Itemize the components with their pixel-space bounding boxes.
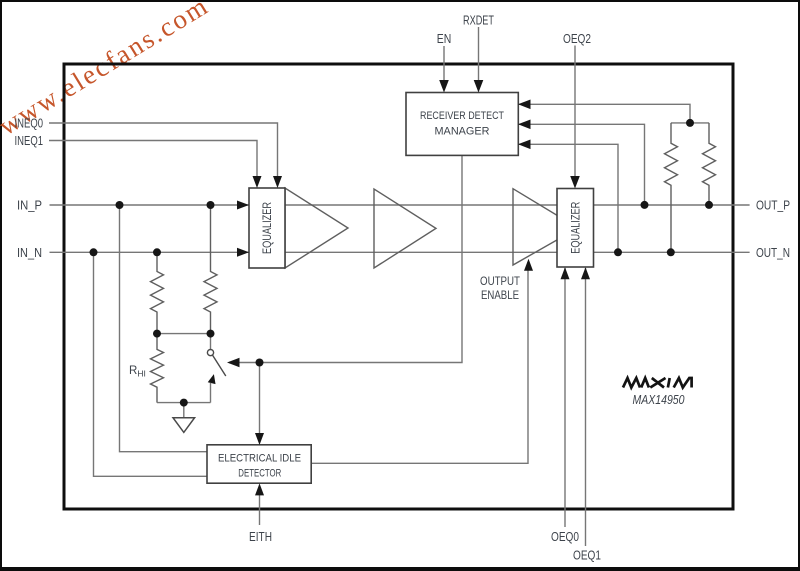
arrow into receiver detect manager feedback 2 (518, 120, 531, 130)
svg-text:MAX14950: MAX14950 (633, 393, 685, 407)
node IN_N branch 1 (90, 248, 98, 256)
svg-text:OUT_P: OUT_P (756, 198, 790, 213)
svg-text:OEQ2: OEQ2 (563, 31, 591, 46)
pin EITH (249, 483, 272, 544)
arrow into electrical idle detector top (255, 433, 264, 445)
wire electrical idle detector output to output enable (311, 262, 528, 463)
svg-text:RXDET: RXDET (463, 13, 494, 28)
pin EN (437, 31, 452, 93)
wire switch bottom rail (157, 402, 211, 404)
wire IN_N rail (50, 251, 750, 253)
equalizer block U1 (249, 188, 285, 268)
wire IN_P rail (50, 204, 750, 206)
equalizer block U2 (557, 189, 594, 268)
svg-text:RECEIVER DETECT: RECEIVER DETECT (420, 110, 504, 122)
pin IN_N label and arrow into U1 (17, 245, 249, 260)
svg-text:ENABLE: ENABLE (481, 290, 519, 302)
node R2 bottom (207, 330, 215, 338)
svg-text:INEQ0: INEQ0 (15, 116, 44, 131)
wire RDM output to switch control (229, 155, 462, 362)
node IN_P branch 1 (116, 201, 124, 209)
pin OEQ0 (551, 267, 579, 544)
node OUT_N feedback (614, 248, 622, 256)
arrow into receiver detect manager feedback 3 (518, 140, 531, 150)
node IN_P branch 2 (207, 201, 215, 209)
svg-text:EQUALIZER: EQUALIZER (262, 202, 274, 254)
wire IN_P branch to electrical idle detector (120, 205, 208, 452)
svg-text:IN_N: IN_N (17, 245, 42, 260)
svg-text:OUT_N: OUT_N (756, 245, 790, 260)
svg-text:EITH: EITH (249, 529, 272, 544)
receiver detect manager block (406, 93, 518, 156)
svg-text:OEQ1: OEQ1 (573, 548, 601, 563)
wire feedback 1 to termination resistors (518, 104, 690, 123)
pin IN_P label and arrow into U1 (17, 198, 249, 213)
ground (173, 403, 195, 433)
wire feedback 3 to OUT_N (518, 144, 618, 252)
svg-text:INEQ1: INEQ1 (15, 133, 44, 148)
switch SW1 (207, 334, 225, 403)
node OUT_N termination (667, 248, 675, 256)
pin INEQ1 (15, 133, 262, 188)
label OUTPUT ENABLE (480, 276, 520, 302)
pin INEQ0 (15, 116, 283, 188)
pin OEQ2 (563, 31, 591, 189)
wire feedback 2 to OUT_P (518, 124, 645, 204)
op-amp A2 (374, 189, 436, 268)
op-amp A1 (285, 188, 348, 268)
svg-text:MANAGER: MANAGER (435, 126, 490, 138)
resistor RT1 (665, 123, 678, 252)
wire termination resistor top bracket (671, 122, 709, 124)
MAX14950 device boundary (64, 64, 733, 509)
svg-text:OEQ0: OEQ0 (551, 529, 579, 544)
pin OEQ1 (573, 267, 601, 562)
wire IN_N branch to electrical idle detector (94, 252, 208, 476)
resistor R1 (151, 252, 164, 333)
svg-text:DETECTOR: DETECTOR (238, 467, 281, 479)
resistor RHI (151, 334, 164, 403)
wire R1 R2 bottom junction (157, 333, 211, 335)
svg-text:ELECTRICAL IDLE: ELECTRICAL IDLE (218, 452, 301, 464)
node IN_N branch 2 (153, 248, 161, 256)
node ground junction (180, 399, 188, 407)
resistor RT2 (703, 123, 716, 205)
node switch control branch (256, 359, 264, 367)
node termination bracket (686, 119, 694, 127)
svg-text:EQUALIZER: EQUALIZER (571, 202, 583, 254)
wire branch to electrical idle detector (259, 363, 261, 443)
node OUT_P feedback (641, 201, 649, 209)
arrow into receiver detect manager feedback 1 (518, 100, 531, 110)
arrow switch control (227, 358, 240, 368)
op-amp A3 output buffer (513, 189, 578, 265)
maxim logo (623, 378, 692, 388)
arrow output enable into A3 (524, 259, 533, 271)
svg-text:OUTPUT: OUTPUT (480, 276, 520, 288)
electrical idle detector block (207, 445, 311, 483)
pin RXDET (463, 13, 494, 93)
node OUT_P termination (705, 201, 713, 209)
resistor R2 (204, 205, 217, 334)
svg-text:IN_P: IN_P (17, 198, 42, 213)
svg-text:EN: EN (437, 31, 452, 46)
node R1 bottom (153, 330, 161, 338)
